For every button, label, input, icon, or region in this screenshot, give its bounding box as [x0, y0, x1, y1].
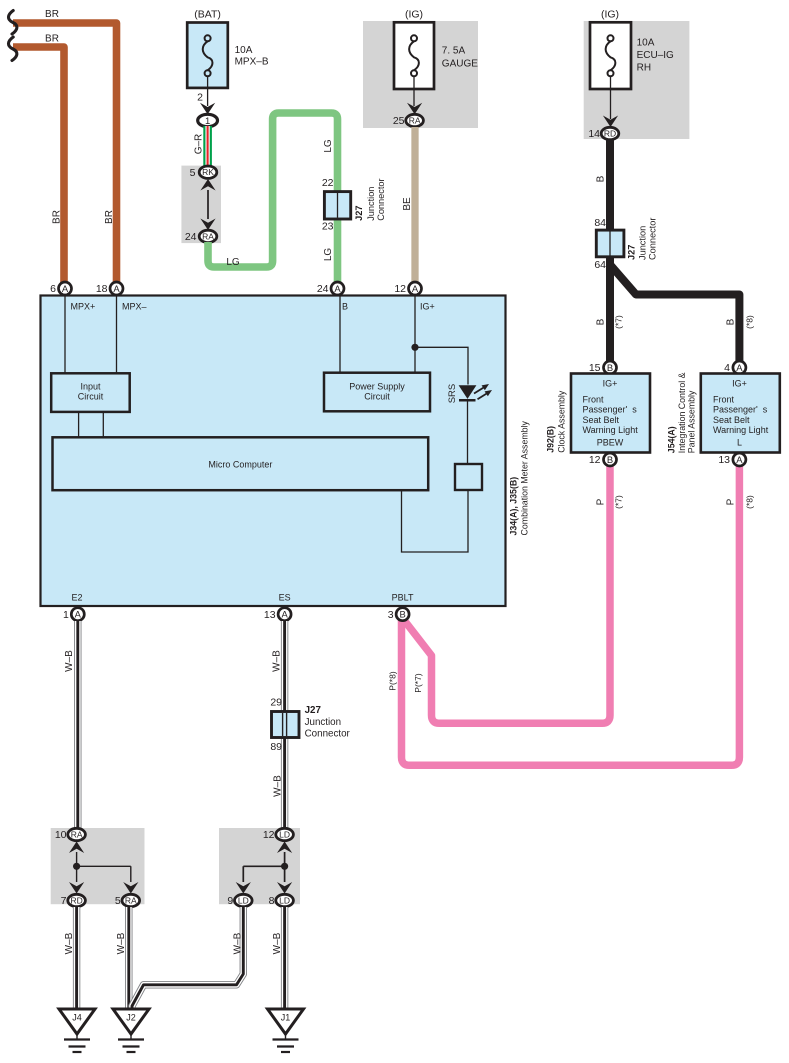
- arrow down to 7 RD: [69, 882, 84, 894]
- svg-text:PBEW: PBEW: [597, 438, 624, 448]
- svg-text:A: A: [113, 283, 120, 294]
- wire W-B 7RD to ground J4: [73, 907, 80, 1010]
- svg-text:J27: J27: [305, 705, 322, 716]
- svg-text:P(*8): P(*8): [388, 671, 398, 691]
- svg-text:9: 9: [227, 895, 233, 907]
- ECU box J92(B) Clock Assembly: [571, 374, 650, 453]
- svg-text:12: 12: [589, 454, 601, 466]
- svg-text:P: P: [596, 498, 607, 505]
- svg-text:LD: LD: [238, 896, 249, 906]
- svg-text:IG+: IG+: [420, 302, 435, 312]
- wire P (*7) from PBLT to J92 pin12: [404, 465, 610, 724]
- svg-text:MPX–B: MPX–B: [235, 57, 269, 68]
- svg-text:7: 7: [61, 895, 67, 907]
- wire pin6 to Input Circuit: [64, 296, 66, 374]
- arrow into 14 RD: [603, 116, 618, 128]
- wire BR from IN (second): [13, 47, 64, 283]
- ground J4: [59, 1009, 95, 1052]
- node junction below 12 LD: [281, 863, 288, 870]
- connector 14 RD: [601, 127, 619, 139]
- svg-text:A: A: [412, 283, 419, 294]
- svg-text:W–B: W–B: [64, 650, 75, 672]
- svg-text:24: 24: [185, 231, 197, 243]
- svg-text:W–B: W–B: [64, 932, 75, 954]
- svg-text:B: B: [726, 318, 737, 325]
- svg-text:(*8): (*8): [745, 495, 755, 509]
- break squiggle wire 1: [8, 11, 16, 35]
- svg-text:RA: RA: [125, 896, 137, 906]
- svg-text:Passenger' s: Passenger' s: [713, 405, 768, 415]
- wire fuse ECU-IG to 14 RD: [610, 76, 612, 119]
- svg-text:LG: LG: [226, 257, 240, 268]
- svg-text:J54(A): J54(A): [667, 426, 677, 453]
- wire LD junction: [243, 852, 284, 882]
- svg-text:RD: RD: [604, 129, 616, 139]
- node 1: [198, 114, 218, 127]
- shade box of connector group LD/LD/LD: [219, 828, 300, 904]
- junction connector J27 (22/23): [324, 192, 350, 219]
- svg-text:J27: J27: [626, 245, 636, 260]
- connector 12 LD: [276, 828, 294, 840]
- svg-text:A: A: [736, 362, 743, 373]
- pin 13 A ES: [278, 608, 291, 621]
- svg-text:3: 3: [388, 609, 394, 621]
- pin 6 A: [59, 282, 72, 295]
- svg-text:23: 23: [322, 221, 334, 233]
- svg-text:Warning Light: Warning Light: [713, 425, 769, 435]
- svg-text:Front: Front: [583, 395, 605, 405]
- svg-text:B: B: [342, 302, 348, 312]
- svg-text:Seat Belt: Seat Belt: [713, 415, 750, 425]
- svg-text:B: B: [399, 609, 405, 620]
- svg-text:BE: BE: [402, 197, 413, 211]
- svg-text:BR: BR: [45, 34, 59, 45]
- arrow down to 8 LD: [277, 882, 292, 894]
- svg-text:(*7): (*7): [614, 495, 624, 509]
- arrow into 25 RA: [407, 103, 422, 115]
- svg-text:Connector: Connector: [376, 178, 386, 220]
- arrow up to 10 RA: [69, 842, 84, 854]
- svg-text:Front: Front: [713, 395, 735, 405]
- svg-text:10A: 10A: [637, 38, 655, 49]
- wire resistor to Micro Computer (U bend): [402, 490, 469, 552]
- svg-text:J1: J1: [281, 1013, 291, 1023]
- connector 7 RD: [68, 894, 86, 906]
- wire Input Circuit to Micro Computer (right): [102, 412, 104, 437]
- svg-text:Input: Input: [80, 382, 101, 392]
- svg-text:B: B: [596, 175, 607, 182]
- svg-text:W–B: W–B: [116, 932, 127, 954]
- svg-text:84: 84: [594, 217, 606, 229]
- svg-text:24: 24: [317, 283, 329, 295]
- wire RA junction: [77, 852, 131, 882]
- svg-text:Junction: Junction: [366, 187, 376, 221]
- svg-text:LG: LG: [323, 248, 334, 262]
- svg-text:6: 6: [50, 283, 56, 295]
- wire fuse GAUGE to 25 RA: [413, 76, 415, 106]
- svg-text:J92(B): J92(B): [545, 426, 555, 453]
- wire junction to SRS LED: [415, 347, 468, 384]
- junction connector J27 (29/89): [272, 712, 300, 738]
- svg-text:P(*7): P(*7): [413, 673, 423, 693]
- LED SRS symbol: [459, 384, 492, 464]
- svg-text:G–R: G–R: [194, 134, 205, 155]
- svg-text:Junction: Junction: [638, 226, 648, 260]
- svg-text:Warning Light: Warning Light: [583, 425, 639, 435]
- wire LG from RA to pin 24: [208, 113, 338, 283]
- svg-text:22: 22: [322, 177, 334, 189]
- svg-text:RD: RD: [70, 896, 82, 906]
- shade box of fuse ECU-IG (IG): [584, 21, 690, 139]
- svg-text:RA: RA: [71, 830, 83, 840]
- svg-text:12: 12: [263, 829, 275, 841]
- arrow up to 12 LD: [277, 842, 292, 854]
- svg-text:Power Supply: Power Supply: [349, 382, 405, 392]
- Power Supply Circuit block: [324, 373, 430, 412]
- arrow down to 9 LD: [236, 882, 251, 894]
- svg-text:BR: BR: [52, 210, 63, 224]
- svg-text:MPX+: MPX+: [71, 302, 96, 312]
- svg-text:1: 1: [205, 116, 210, 127]
- svg-text:W–B: W–B: [273, 775, 284, 797]
- svg-text:10A: 10A: [235, 45, 253, 56]
- svg-text:BR: BR: [45, 9, 59, 20]
- svg-text:Connector: Connector: [305, 729, 351, 740]
- svg-text:13: 13: [264, 609, 276, 621]
- pin 24 A: [331, 282, 344, 295]
- svg-text:IG+: IG+: [732, 379, 747, 389]
- svg-text:LG: LG: [323, 139, 334, 153]
- svg-text:7. 5A: 7. 5A: [442, 46, 466, 57]
- svg-text:12: 12: [394, 283, 406, 295]
- wire pin18 to Input Circuit: [116, 296, 118, 374]
- svg-text:(BAT): (BAT): [194, 9, 221, 21]
- connector 5 RK: [199, 166, 217, 178]
- svg-text:18: 18: [96, 283, 108, 295]
- junction connector J27 (84/64): [596, 230, 624, 257]
- svg-text:LD: LD: [279, 830, 290, 840]
- wire W-B 5RA to ground J2: [125, 907, 132, 1010]
- pin 15 B: [604, 361, 617, 374]
- svg-text:25: 25: [393, 115, 405, 127]
- svg-text:BR: BR: [104, 210, 115, 224]
- svg-text:RH: RH: [637, 63, 651, 74]
- svg-text:W–B: W–B: [232, 932, 243, 954]
- svg-text:29: 29: [270, 697, 282, 709]
- svg-text:ES: ES: [279, 593, 291, 603]
- svg-text:E2: E2: [71, 593, 82, 603]
- svg-text:P: P: [726, 498, 737, 505]
- connector 8 LD: [276, 894, 294, 906]
- svg-text:B: B: [607, 362, 613, 373]
- svg-text:2: 2: [197, 92, 203, 104]
- pin 12 B: [604, 453, 617, 466]
- svg-text:5: 5: [115, 895, 121, 907]
- wire BE: [411, 127, 418, 283]
- break squiggle wire 2: [8, 37, 16, 61]
- svg-text:ECU–IG: ECU–IG: [637, 50, 674, 61]
- ECU box J54(A) Integration Control & Panel Assembly: [701, 374, 780, 453]
- svg-text:J4: J4: [72, 1013, 82, 1023]
- wire Input Circuit to Micro Computer (left): [78, 412, 80, 437]
- svg-text:8: 8: [269, 895, 275, 907]
- svg-text:W–B: W–B: [272, 932, 283, 954]
- svg-text:A: A: [75, 609, 82, 620]
- pin 4 A: [733, 361, 746, 374]
- wire B main: [606, 140, 614, 363]
- node junction below 10 RA: [73, 863, 80, 870]
- arrow into node 1: [200, 103, 215, 115]
- shade box of connector pair RK/RA: [181, 166, 221, 244]
- svg-text:IG+: IG+: [603, 379, 618, 389]
- svg-text:10: 10: [55, 829, 67, 841]
- svg-text:A: A: [62, 283, 69, 294]
- svg-text:(IG): (IG): [601, 9, 619, 21]
- svg-text:A: A: [281, 609, 288, 620]
- pin 13 A: [733, 453, 746, 466]
- wire fuse MPX-B to node 1: [207, 76, 209, 106]
- wire P (*8) from PBLT to J54 pin13: [402, 465, 740, 766]
- pin 1 A E2: [71, 608, 84, 621]
- wire BR from IN (top): [13, 23, 117, 283]
- node junction on IG+ wire: [411, 344, 418, 351]
- svg-text:W–B: W–B: [272, 650, 283, 672]
- svg-text:L: L: [737, 438, 742, 448]
- svg-text:Clock Assembly: Clock Assembly: [557, 390, 567, 453]
- svg-text:Circuit: Circuit: [364, 392, 390, 402]
- pin 18 A: [110, 282, 123, 295]
- svg-text:89: 89: [270, 741, 282, 753]
- svg-text:RK: RK: [202, 167, 214, 177]
- svg-text:64: 64: [594, 259, 606, 271]
- svg-text:B: B: [607, 454, 613, 465]
- svg-text:MPX–: MPX–: [122, 302, 147, 312]
- Input Circuit block: [51, 373, 130, 412]
- svg-text:Connector: Connector: [648, 218, 658, 260]
- pin 3 B PBLT: [396, 608, 409, 621]
- shade box of connector group RA/RD/RA: [51, 828, 145, 904]
- connector 10 RA: [68, 828, 86, 840]
- wire pin12 to Power Supply Circuit: [414, 296, 416, 373]
- svg-text:Junction: Junction: [305, 717, 342, 728]
- arrow down to RA: [200, 219, 215, 231]
- shade box of fuse GAUGE (IG): [363, 21, 478, 128]
- wire W-B from ES: [281, 621, 288, 829]
- svg-text:5: 5: [190, 167, 196, 179]
- svg-text:Circuit: Circuit: [78, 392, 104, 402]
- svg-text:RA: RA: [202, 231, 214, 241]
- svg-text:A: A: [334, 283, 341, 294]
- ECU box J34/J35 Combination Meter Assembly: [41, 296, 506, 607]
- svg-text:A: A: [736, 454, 743, 465]
- svg-text:GAUGE: GAUGE: [442, 59, 478, 70]
- svg-text:(*7): (*7): [614, 315, 624, 329]
- pin 12 A: [409, 282, 422, 295]
- svg-text:13: 13: [718, 454, 730, 466]
- fuse 10A ECU-IG RH: [590, 22, 631, 89]
- svg-text:Seat Belt: Seat Belt: [583, 415, 620, 425]
- svg-text:J34(A), J35(B): J34(A), J35(B): [509, 477, 519, 536]
- svg-text:14: 14: [588, 128, 600, 140]
- connector 25 RA: [406, 114, 424, 126]
- wire W-B 8LD to ground J1: [281, 907, 288, 1010]
- wire W-B from E2: [74, 621, 81, 829]
- svg-text:LD: LD: [279, 896, 290, 906]
- fuse 7.5A GAUGE: [394, 22, 434, 89]
- svg-text:B: B: [596, 318, 607, 325]
- svg-text:J27: J27: [354, 205, 364, 220]
- svg-text:SRS: SRS: [447, 384, 458, 404]
- svg-text:Panel Assembly: Panel Assembly: [687, 390, 697, 453]
- wire G-R: [203, 126, 212, 167]
- resistor block: [455, 464, 482, 490]
- ground J1: [268, 1009, 304, 1052]
- ground J2: [113, 1009, 149, 1052]
- connector 5 RA: [122, 894, 140, 906]
- svg-text:Combination Meter Assembly: Combination Meter Assembly: [519, 420, 529, 535]
- svg-text:1: 1: [63, 609, 69, 621]
- wire W-B 9LD to ground J2 (cross run): [132, 907, 243, 1009]
- svg-text:Passenger' s: Passenger' s: [583, 405, 638, 415]
- svg-text:J2: J2: [126, 1013, 136, 1023]
- arrow up to RK: [200, 179, 215, 191]
- svg-text:(*8): (*8): [745, 315, 755, 329]
- wire pin24 to Power Supply Circuit: [339, 296, 341, 373]
- connector 24 RA: [199, 230, 217, 242]
- wire RK to RA: [207, 190, 209, 219]
- arrow down to 5 RA: [123, 882, 138, 894]
- svg-text:Micro Computer: Micro Computer: [208, 460, 272, 470]
- Micro Computer block: [53, 437, 429, 490]
- wire B branch to 4 A: [611, 266, 740, 363]
- svg-text:RA: RA: [409, 116, 421, 126]
- connector 9 LD: [235, 894, 253, 906]
- svg-text:(IG): (IG): [405, 9, 423, 21]
- fuse 10A MPX-B: [187, 23, 228, 88]
- svg-text:PBLT: PBLT: [392, 593, 414, 603]
